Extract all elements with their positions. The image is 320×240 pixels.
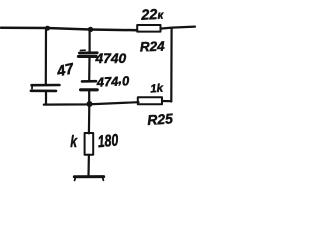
- wire R25 right terminal: [162, 100, 171, 102]
- wire R24 right to corner with overhang: [161, 27, 196, 29]
- wire right vertical: [170, 28, 173, 102]
- svg-text:R25: R25: [147, 110, 174, 128]
- capacitor C1 top plate: [79, 51, 97, 54]
- capacitor C2 bottom plate: [81, 88, 98, 91]
- svg-text:22к: 22к: [140, 7, 165, 24]
- wire capacitor 47 bottom stub: [45, 91, 47, 104]
- resistor R25 body: [138, 97, 162, 104]
- resistor 180 body: [85, 133, 94, 155]
- svg-text:474,0: 474,0: [95, 71, 130, 90]
- capacitor C2 top plate: [82, 80, 96, 83]
- capacitor 47 top plate: [32, 84, 60, 87]
- capacitor 47 bottom plate: [31, 90, 56, 93]
- svg-text:47: 47: [54, 60, 75, 80]
- node B junction dot middle: [88, 27, 93, 32]
- svg-text:R24: R24: [140, 39, 166, 55]
- wire node C down to resistor: [88, 105, 91, 133]
- wire bottom horizontal: [44, 102, 139, 104]
- wire resistor 180 to ground: [87, 155, 90, 176]
- svg-text:k: k: [70, 133, 77, 151]
- capacitor 47 top plate left tick: [31, 86, 33, 89]
- wire middle vertical from node B: [88, 30, 90, 52]
- svg-text:1k: 1k: [150, 83, 164, 96]
- wire C2 to bottom wire: [88, 90, 90, 102]
- svg-text:180: 180: [97, 132, 120, 152]
- wire top horizontal input: [1, 28, 137, 30]
- svg-text:4740: 4740: [95, 51, 127, 66]
- ground bar: [74, 175, 103, 178]
- node A junction dot left: [45, 26, 50, 31]
- capacitor C1 top plate tick: [80, 49, 85, 51]
- wire between C1 and C2: [88, 58, 91, 80]
- node C junction dot bottom: [87, 101, 93, 107]
- ground right hook: [102, 177, 105, 180]
- wire left vertical from node A: [45, 28, 47, 84]
- capacitor C1 bottom plate: [78, 55, 96, 58]
- ground left hook: [74, 177, 77, 180]
- resistor R24 body: [137, 25, 160, 32]
